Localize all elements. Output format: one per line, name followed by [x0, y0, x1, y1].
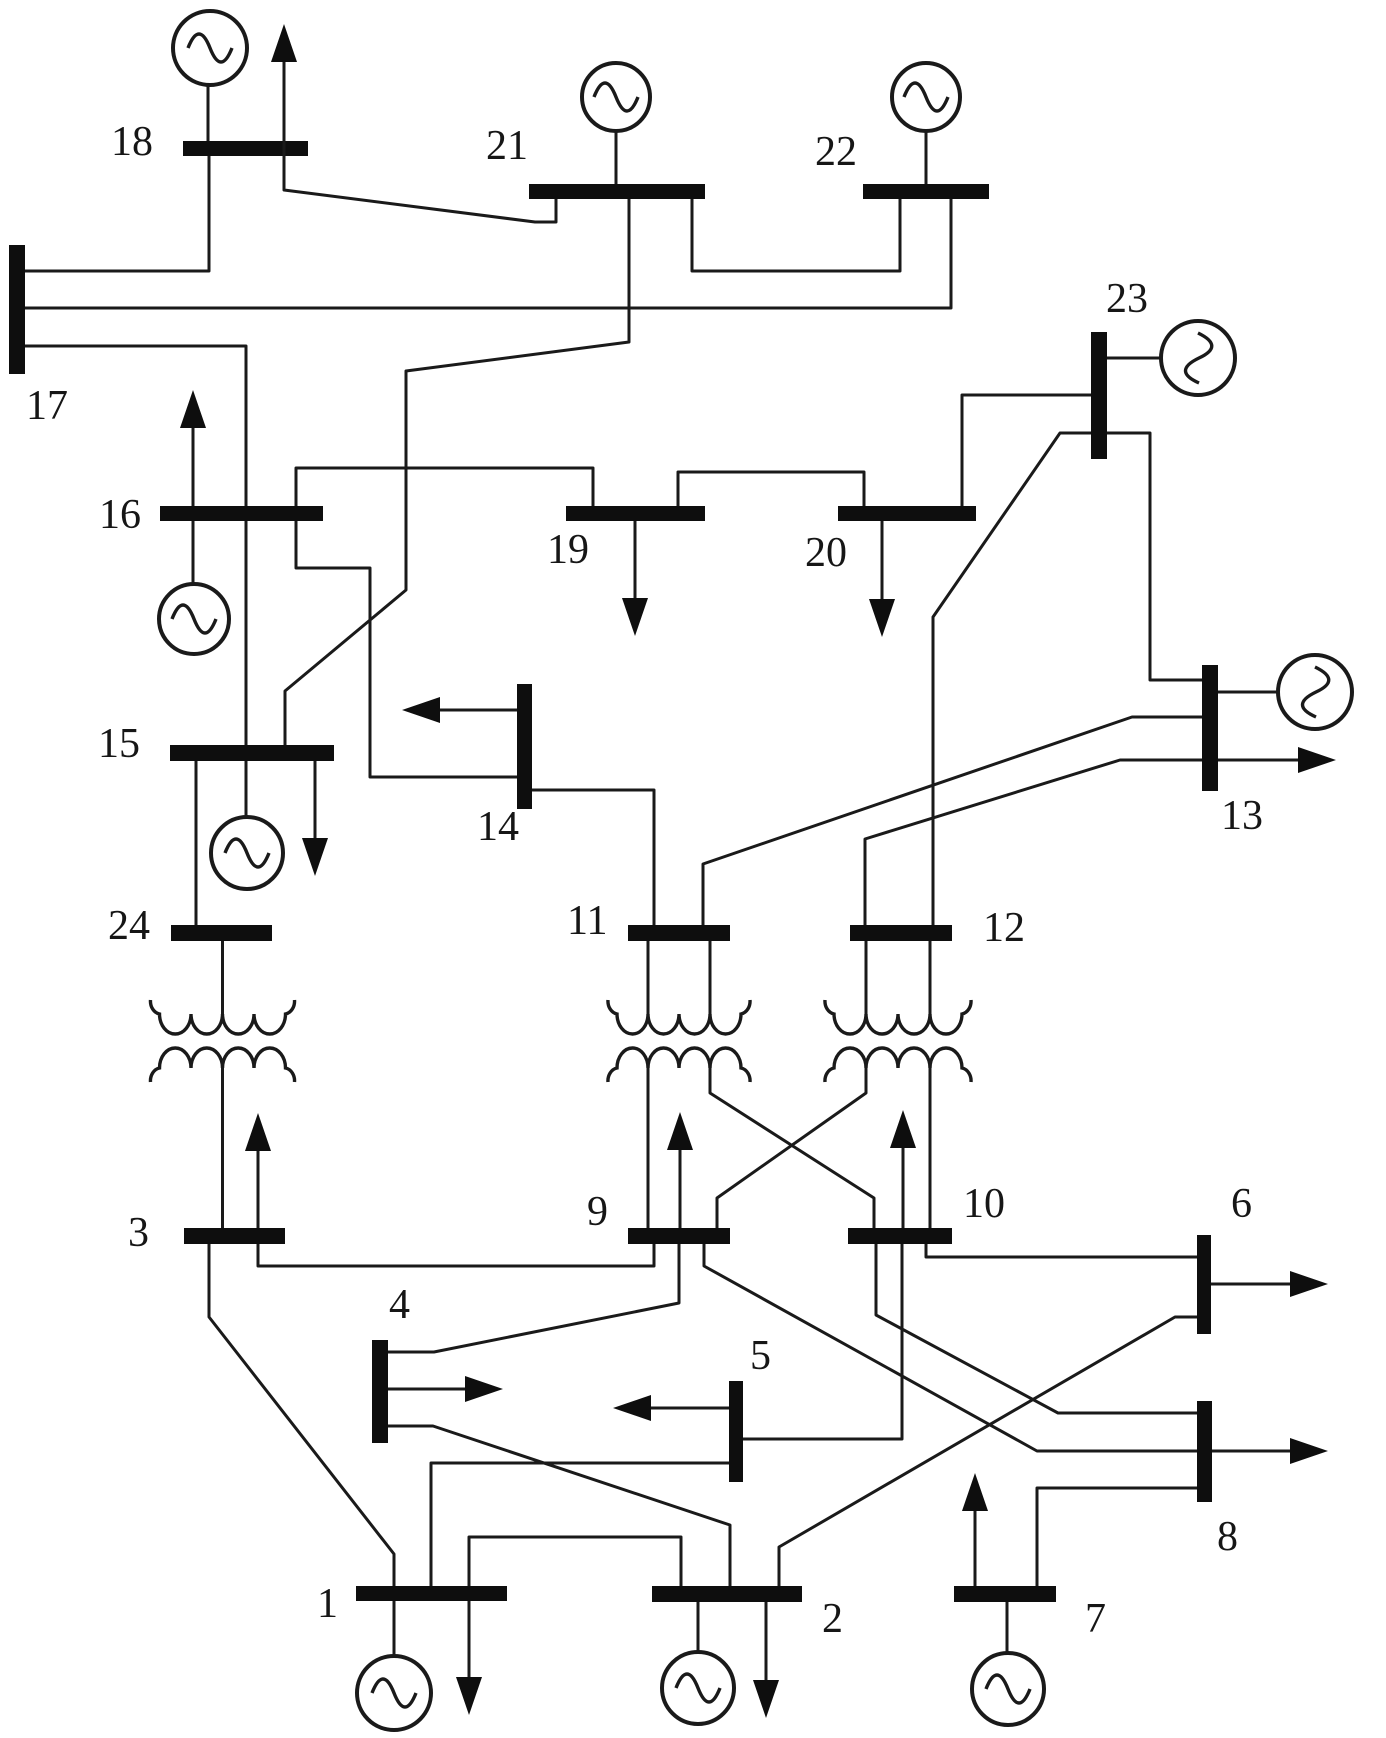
wire 12-13 — [865, 760, 1202, 925]
svg-text:13: 13 — [1221, 793, 1263, 839]
svg-text:5: 5 — [750, 1333, 771, 1379]
bus 4 — [372, 1340, 388, 1443]
transformer T9-12 / T10-12 — [717, 941, 971, 1228]
load arrow bus 15 — [302, 761, 328, 876]
wire 11-13 — [703, 717, 1202, 925]
load arrow bus 13 — [1218, 747, 1336, 773]
bus 5 — [729, 1381, 743, 1482]
bus 2 — [652, 1586, 802, 1602]
svg-text:1: 1 — [317, 1581, 338, 1627]
svg-text:17: 17 — [26, 383, 68, 429]
wire 2-6 — [779, 1317, 1197, 1586]
svg-text:7: 7 — [1085, 1596, 1106, 1642]
generator G23 — [1107, 321, 1235, 395]
bus 24 — [171, 925, 272, 941]
generator G13 — [1218, 655, 1352, 729]
bus 18 — [183, 141, 308, 156]
bus 13 — [1202, 665, 1218, 791]
wire 18-21 — [284, 156, 556, 222]
load arrow bus 14 — [402, 697, 517, 723]
load arrow bus 1 — [456, 1601, 482, 1715]
generator G7 — [972, 1602, 1044, 1725]
load arrow bus 5 — [613, 1395, 729, 1421]
load arrow bus 16 — [180, 390, 206, 506]
wire 21-22 — [692, 199, 900, 271]
generator G2 — [662, 1602, 734, 1724]
svg-text:8: 8 — [1217, 1514, 1238, 1560]
wire 4-9 — [388, 1244, 679, 1352]
generator G1 — [357, 1601, 431, 1730]
svg-text:20: 20 — [805, 530, 847, 576]
wire 1-3 — [209, 1244, 394, 1586]
generator G15 — [211, 761, 283, 889]
bus 23 — [1091, 332, 1107, 459]
wire 1-2 — [469, 1537, 681, 1586]
generator G16 — [159, 521, 229, 654]
svg-text:24: 24 — [108, 903, 150, 949]
bus 3 — [184, 1228, 285, 1244]
load arrow bus 8 — [1212, 1438, 1328, 1464]
wire 3-9 — [258, 1244, 654, 1266]
svg-text:22: 22 — [815, 129, 857, 175]
bus 8 — [1197, 1401, 1212, 1502]
bus 21 — [529, 184, 705, 199]
bus 7 — [954, 1586, 1056, 1602]
wire 23-12 — [933, 433, 1091, 925]
wire 8-10 — [876, 1244, 1197, 1413]
svg-text:3: 3 — [128, 1210, 149, 1256]
wire 16-15 — [245, 521, 248, 745]
wire 15-24 — [195, 761, 198, 925]
wire 5-10 — [743, 1244, 902, 1439]
bus 10 — [848, 1228, 952, 1244]
load arrow bus 9 — [667, 1112, 693, 1228]
wire 6-10 — [926, 1244, 1197, 1257]
load arrow bus 20 — [869, 521, 895, 637]
bus 9 — [628, 1228, 730, 1244]
svg-text:18: 18 — [111, 119, 153, 165]
wire 16-17 — [25, 346, 246, 506]
svg-text:21: 21 — [486, 123, 528, 169]
wire 17-22 — [25, 199, 951, 308]
load arrow bus 18 — [271, 24, 297, 156]
bus 15 — [170, 745, 334, 761]
generator G22 — [892, 63, 960, 184]
svg-text:9: 9 — [587, 1189, 608, 1235]
load arrow bus 19 — [622, 521, 648, 636]
wire 17-18 — [25, 156, 209, 271]
bus 19 — [566, 506, 705, 521]
wire 19-20 — [678, 472, 864, 506]
wire 20-23 — [962, 395, 1091, 506]
svg-text:11: 11 — [567, 898, 607, 944]
load arrow bus 2 — [753, 1602, 779, 1718]
generator G21 — [582, 63, 650, 184]
load arrow bus 7 — [962, 1473, 988, 1586]
bus 20 — [838, 506, 976, 521]
svg-text:12: 12 — [983, 905, 1025, 951]
wire 7-8 — [1037, 1488, 1197, 1586]
bus 12 — [850, 925, 952, 941]
wire 21-15 — [285, 199, 629, 745]
wire 23-13 — [1107, 433, 1202, 680]
load arrow bus 6 — [1211, 1271, 1328, 1297]
svg-text:23: 23 — [1106, 276, 1148, 322]
wire 16-19 — [296, 468, 593, 506]
generator G18 — [173, 11, 247, 141]
bus 11 — [628, 925, 730, 941]
svg-text:15: 15 — [98, 721, 140, 767]
wire 9-8 — [704, 1244, 1197, 1451]
svg-text:16: 16 — [99, 492, 141, 538]
wire 16-14 — [296, 521, 517, 777]
svg-text:14: 14 — [477, 804, 519, 850]
load arrow bus 10 — [890, 1110, 916, 1228]
svg-text:19: 19 — [547, 527, 589, 573]
transformer T9-11 / T10-11 — [608, 941, 874, 1228]
svg-text:6: 6 — [1231, 1181, 1252, 1227]
load arrow bus 4 — [388, 1376, 503, 1402]
bus 1 — [356, 1586, 507, 1601]
svg-text:10: 10 — [963, 1181, 1005, 1227]
transformer T3-24 — [150, 941, 294, 1228]
bus 22 — [863, 184, 989, 199]
wire 14-11 — [532, 790, 654, 925]
svg-text:4: 4 — [389, 1282, 410, 1328]
wire 1-5 — [431, 1463, 729, 1586]
bus 17 — [9, 245, 25, 374]
bus 14 — [517, 684, 532, 809]
wire 2-4 — [388, 1426, 730, 1586]
bus 6 — [1197, 1235, 1211, 1334]
load arrow bus 3 — [245, 1113, 271, 1228]
svg-text:2: 2 — [822, 1596, 843, 1642]
bus 16 — [160, 506, 323, 521]
